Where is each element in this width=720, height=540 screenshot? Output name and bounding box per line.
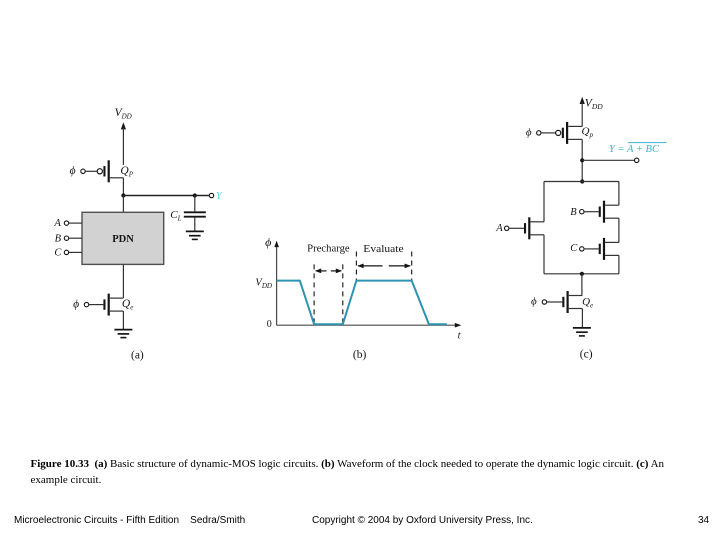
svg-text:C: C	[54, 248, 62, 259]
svg-text:0: 0	[267, 319, 272, 330]
svg-text:Qe: Qe	[582, 296, 593, 310]
svg-text:VDD: VDD	[115, 107, 132, 121]
svg-text:Qp: Qp	[582, 125, 594, 139]
svg-text:B: B	[55, 233, 62, 244]
svg-text:ϕ: ϕ	[265, 235, 271, 249]
svg-text:VDD: VDD	[255, 277, 272, 290]
svg-text:B: B	[570, 207, 577, 218]
svg-text:A: A	[53, 218, 61, 229]
svg-text:QP: QP	[120, 165, 133, 179]
svg-text:t: t	[458, 330, 462, 341]
svg-text:Qe: Qe	[122, 298, 133, 312]
svg-text:Precharge: Precharge	[307, 244, 350, 255]
svg-text:ϕ: ϕ	[531, 295, 537, 307]
svg-text:CL: CL	[170, 209, 181, 223]
svg-text:Y = A + BC: Y = A + BC	[609, 144, 660, 155]
svg-text:A: A	[495, 223, 503, 234]
svg-text:(b): (b)	[353, 349, 367, 361]
svg-text:ϕ: ϕ	[70, 165, 76, 177]
svg-text:Evaluate: Evaluate	[363, 244, 404, 255]
svg-text:ϕ: ϕ	[73, 298, 79, 310]
svg-text:C: C	[570, 243, 578, 254]
svg-text:(c): (c)	[580, 349, 593, 361]
svg-text:PDN: PDN	[112, 234, 134, 245]
svg-text:Y: Y	[216, 191, 223, 202]
svg-text:VDD: VDD	[585, 98, 603, 112]
svg-text:(a): (a)	[131, 349, 144, 361]
svg-text:ϕ: ϕ	[526, 126, 532, 138]
